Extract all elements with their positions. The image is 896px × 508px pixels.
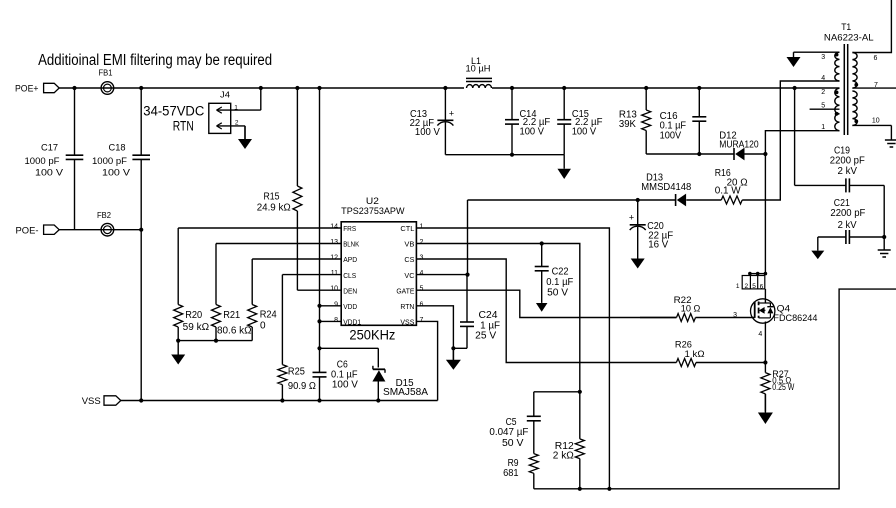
- capacitor C21: [818, 236, 846, 238]
- wire C5 top: [534, 391, 580, 393]
- capacitor C13: [444, 88, 446, 120]
- node C22 top: [540, 241, 544, 245]
- wire header to Q4 drain: [764, 289, 766, 303]
- svg-text:VDD: VDD: [343, 302, 358, 311]
- svg-text:GATE: GATE: [396, 286, 414, 295]
- wire CLS net: [282, 274, 341, 276]
- node C19 rail: [793, 86, 797, 90]
- node VDD rail: [317, 86, 321, 90]
- node C20 top: [636, 198, 640, 202]
- svg-text:SMAJ58A: SMAJ58A: [383, 387, 428, 398]
- capacitor C15: [563, 88, 565, 120]
- resistor R9: [529, 454, 538, 474]
- earth ground below C21: [883, 237, 885, 250]
- svg-text:6: 6: [874, 55, 878, 62]
- svg-text:C18: C18: [109, 142, 126, 152]
- T1 pin 5 stub: [810, 108, 840, 110]
- earth ground T1 pin 10: [890, 125, 892, 140]
- svg-text:100 V: 100 V: [332, 379, 358, 390]
- resistor R25: [281, 275, 283, 365]
- node Q4 source R26: [763, 360, 767, 364]
- node VDD: [317, 304, 321, 308]
- wire BLNK net: [216, 243, 341, 245]
- node C6 bottom: [317, 398, 321, 402]
- node C24 RTN join: [451, 346, 455, 350]
- ground T1 pin 3: [793, 52, 795, 57]
- svg-text:CTL: CTL: [400, 224, 414, 233]
- J4 pin 1 arrow: [217, 109, 261, 111]
- svg-text:3: 3: [821, 54, 825, 61]
- node VSS-C18: [139, 398, 143, 402]
- svg-text:DEN: DEN: [343, 286, 357, 295]
- svg-text:+: +: [629, 213, 634, 223]
- svg-text:VSS: VSS: [400, 318, 414, 327]
- svg-text:2 kV: 2 kV: [838, 220, 857, 231]
- resistor R26: [676, 359, 696, 367]
- svg-text:100 V: 100 V: [102, 167, 130, 177]
- node R21 bottom: [214, 339, 218, 343]
- wire C13 C14 C15 bottoms: [445, 154, 564, 156]
- capacitor C24: [466, 275, 468, 322]
- capacitor C16: [698, 88, 700, 117]
- wire D13 R16 row: [468, 199, 676, 201]
- wire POE- to FB2: [59, 229, 141, 231]
- capacitor C20: [637, 200, 639, 225]
- wire POE+ rail: [59, 87, 464, 89]
- svg-text:2200 pF: 2200 pF: [830, 208, 865, 219]
- svg-text:681: 681: [503, 468, 519, 479]
- wire CS net: [416, 259, 676, 363]
- svg-text:100 V: 100 V: [520, 127, 545, 138]
- svg-text:4: 4: [821, 75, 825, 82]
- svg-text:R20: R20: [185, 310, 202, 321]
- T1 pin 7 wire: [852, 87, 896, 89]
- node CTL bottom: [607, 487, 611, 491]
- wire VB net: [416, 244, 579, 439]
- node R13 rail: [644, 86, 648, 90]
- svg-text:100 V: 100 V: [415, 127, 440, 138]
- T1 secondary winding upper: [852, 53, 857, 89]
- svg-text:0.25 W: 0.25 W: [772, 382, 794, 392]
- svg-text:4: 4: [758, 331, 762, 338]
- ground below R27: [764, 394, 766, 413]
- wire GATE net: [416, 290, 676, 317]
- svg-text:5: 5: [752, 283, 756, 290]
- T1 pin 6 wire: [852, 0, 891, 53]
- svg-text:RTN: RTN: [173, 118, 194, 133]
- svg-text:3: 3: [420, 255, 424, 262]
- node R20 bottom: [176, 339, 180, 343]
- node C15 rail: [562, 86, 566, 90]
- svg-text:Additioinal EMI filtering may: Additioinal EMI filtering may be require…: [38, 52, 272, 69]
- svg-text:12: 12: [330, 255, 338, 262]
- T1 primary winding lower: [835, 88, 840, 130]
- port POE-: [44, 225, 60, 234]
- ground J4 pin 2: [244, 126, 246, 139]
- svg-text:100 V: 100 V: [572, 127, 597, 138]
- wire rail L1 to T1 pin 2: [492, 87, 840, 89]
- svg-text:24.9 kΩ: 24.9 kΩ: [257, 203, 292, 214]
- resistor R20: [177, 228, 179, 305]
- node C16 rail: [697, 86, 701, 90]
- wire C6 D15 top: [320, 347, 379, 349]
- svg-text:MMSD4148: MMSD4148: [641, 182, 691, 193]
- diode D15 SMAJ58A: [377, 348, 379, 367]
- wire J4 pin 1 to rail: [260, 88, 262, 110]
- capacitor C6: [319, 348, 321, 372]
- node FB2 junction: [139, 228, 143, 232]
- svg-text:FB1: FB1: [99, 69, 114, 78]
- svg-text:R25: R25: [288, 367, 305, 378]
- svg-text:14: 14: [330, 224, 338, 231]
- wire FRS net: [178, 227, 341, 229]
- svg-text:39K: 39K: [619, 119, 636, 130]
- svg-text:VB: VB: [404, 240, 414, 249]
- svg-text:R21: R21: [223, 310, 240, 321]
- node C16 bottom: [697, 152, 701, 156]
- wire DEN net: [297, 289, 341, 291]
- wire VSS pin to rail: [416, 321, 437, 400]
- svg-text:59 kΩ: 59 kΩ: [183, 322, 210, 333]
- svg-text:34-57VDC: 34-57VDC: [143, 103, 204, 118]
- svg-text:7: 7: [420, 317, 424, 324]
- svg-text:10 µH: 10 µH: [466, 64, 491, 74]
- svg-text:FRS: FRS: [343, 224, 356, 233]
- svg-text:0.047 µF: 0.047 µF: [489, 427, 528, 438]
- capacitor C14: [511, 88, 513, 120]
- svg-text:5: 5: [420, 286, 424, 293]
- node C13 rail: [443, 86, 447, 90]
- wire R16 to T1 pin 4: [742, 81, 839, 200]
- svg-text:R15: R15: [264, 191, 280, 202]
- svg-text:100 V: 100 V: [35, 167, 63, 177]
- svg-text:C22: C22: [552, 266, 569, 277]
- T1 secondary winding lower: [852, 91, 857, 125]
- svg-text:0: 0: [260, 320, 266, 331]
- svg-text:FB2: FB2: [97, 211, 112, 220]
- svg-text:50 V: 50 V: [547, 287, 568, 298]
- wire D13 branch vertical: [467, 200, 469, 275]
- node VC: [465, 273, 469, 277]
- svg-text:5: 5: [821, 103, 825, 110]
- wire VSS rail: [121, 400, 438, 402]
- T1 pin 1 wire: [765, 131, 839, 274]
- ground below C20: [637, 257, 639, 259]
- diode D12 MURA120: [733, 148, 735, 160]
- node D12 T1 pin1: [763, 152, 767, 156]
- wire FB2 node down to VSS rail: [140, 230, 142, 401]
- svg-text:FDC86244: FDC86244: [773, 313, 817, 324]
- ground below R20: [177, 341, 179, 355]
- svg-text:10: 10: [872, 118, 880, 125]
- wire R20 R21 R24 bottoms: [178, 340, 252, 342]
- svg-text:1 kΩ: 1 kΩ: [685, 349, 705, 359]
- ferrite bead FB2: [101, 223, 114, 236]
- svg-text:6: 6: [420, 301, 424, 308]
- svg-text:250KHz: 250KHz: [349, 327, 395, 342]
- node C17 top: [72, 86, 76, 90]
- svg-text:POE-: POE-: [16, 225, 39, 236]
- svg-text:T1: T1: [841, 22, 851, 32]
- wire bottom rail: [534, 289, 896, 489]
- svg-text:25 V: 25 V: [475, 331, 496, 342]
- node J4 rail: [259, 86, 263, 90]
- svg-text:0.1 µF: 0.1 µF: [546, 277, 573, 288]
- node D15 bottom: [376, 398, 380, 402]
- resistor R24: [251, 259, 253, 305]
- svg-text:VDD1: VDD1: [343, 318, 361, 327]
- svg-text:U2: U2: [366, 196, 379, 206]
- T1 pin 3 wire: [794, 51, 840, 53]
- node R15 rail: [295, 86, 299, 90]
- svg-text:50 V: 50 V: [502, 438, 524, 449]
- svg-text:2: 2: [420, 239, 424, 246]
- svg-text:2 kV: 2 kV: [838, 166, 858, 177]
- inductor L1: [467, 85, 492, 88]
- diode D13 MMSD4148: [675, 194, 677, 206]
- svg-text:RTN: RTN: [400, 302, 414, 311]
- svg-text:2: 2: [235, 119, 239, 126]
- capacitor C17: [74, 88, 76, 155]
- resistor R12: [575, 439, 584, 459]
- port VSS: [104, 396, 121, 405]
- wire C19 to C21 right: [883, 185, 885, 237]
- svg-text:6: 6: [760, 284, 764, 291]
- node R25 bottom: [280, 398, 284, 402]
- node VDD1: [317, 319, 321, 323]
- svg-text:1: 1: [821, 124, 825, 131]
- ferrite bead FB1: [101, 82, 114, 95]
- wire clamp bottom: [646, 153, 734, 155]
- resistor R27: [764, 363, 766, 373]
- svg-text:+: +: [449, 109, 454, 119]
- svg-text:1: 1: [234, 104, 238, 111]
- svg-text:MURA120: MURA120: [719, 140, 759, 151]
- svg-text:POE+: POE+: [15, 84, 39, 95]
- svg-text:NA6223-AL: NA6223-AL: [824, 33, 874, 43]
- svg-text:VSS: VSS: [82, 396, 101, 407]
- resistor R22: [640, 317, 677, 319]
- svg-text:R24: R24: [260, 309, 277, 320]
- svg-text:90.9 Ω: 90.9 Ω: [288, 381, 316, 392]
- wire VDD stub: [320, 305, 342, 307]
- svg-text:10 Ω: 10 Ω: [681, 304, 701, 314]
- ground below C15: [563, 155, 565, 169]
- T1 core: [843, 44, 845, 135]
- svg-text:4: 4: [420, 270, 424, 277]
- resistor R21: [215, 244, 217, 305]
- svg-text:C17: C17: [41, 142, 58, 152]
- node C14 rail: [510, 86, 514, 90]
- svg-text:2200 pF: 2200 pF: [830, 156, 865, 167]
- op-amp U2 TPS23753APW body: [341, 222, 416, 325]
- wire RTN net: [416, 306, 453, 362]
- svg-text:11: 11: [331, 270, 338, 277]
- capacitor C5: [533, 392, 535, 417]
- node C14 bottom: [510, 153, 514, 157]
- svg-text:BLNK: BLNK: [343, 240, 359, 249]
- resistor R15: [296, 88, 298, 186]
- svg-text:C24: C24: [479, 310, 498, 321]
- svg-text:APD: APD: [343, 255, 358, 264]
- svg-text:J4: J4: [220, 91, 231, 100]
- capacitor C22: [541, 244, 543, 267]
- svg-text:1: 1: [736, 283, 740, 290]
- port POE+: [44, 83, 60, 92]
- wire VC net: [416, 274, 467, 276]
- node C6 top: [317, 346, 321, 350]
- T1 pin 10 wire: [852, 124, 891, 126]
- wire VDD vertical: [319, 88, 321, 348]
- svg-text:2 kΩ: 2 kΩ: [553, 451, 575, 462]
- node C18 top: [139, 86, 143, 90]
- svg-text:1000 pF: 1000 pF: [92, 156, 128, 166]
- wire VDD1 stub: [320, 320, 342, 322]
- svg-text:7: 7: [874, 82, 878, 89]
- svg-text:16 V: 16 V: [648, 240, 668, 251]
- node R12 bottom: [578, 487, 582, 491]
- svg-text:2: 2: [744, 283, 748, 290]
- svg-text:0.1 W: 0.1 W: [715, 186, 742, 197]
- svg-text:TPS23753APW: TPS23753APW: [341, 206, 405, 216]
- Q4 source wire: [764, 322, 766, 363]
- J4 pin 2 arrow: [217, 125, 246, 127]
- T1 polarity dots: [835, 53, 839, 57]
- wire rail to C19: [794, 88, 796, 185]
- Q4 drain header: [742, 276, 765, 289]
- ground C21 left: [817, 237, 819, 251]
- node C21 right: [882, 235, 886, 239]
- svg-text:CS: CS: [404, 255, 414, 264]
- svg-text:9: 9: [334, 301, 338, 308]
- svg-text:3: 3: [733, 312, 737, 319]
- capacitor C19: [795, 184, 846, 186]
- svg-text:VC: VC: [404, 271, 415, 280]
- wire APD net: [252, 258, 341, 260]
- svg-text:1000 pF: 1000 pF: [25, 156, 61, 166]
- ground RTN: [452, 348, 454, 360]
- svg-text:100V: 100V: [660, 130, 682, 141]
- svg-text:8: 8: [334, 317, 338, 324]
- svg-text:80.6 kΩ: 80.6 kΩ: [217, 325, 252, 336]
- capacitor C18: [140, 88, 142, 155]
- T1 primary winding upper: [835, 52, 840, 81]
- resistor R13: [645, 88, 647, 110]
- wire CTL net: [416, 228, 609, 489]
- ground below C22: [541, 302, 543, 304]
- resistor R16: [721, 196, 742, 204]
- svg-text:CLS: CLS: [343, 271, 356, 280]
- svg-text:1: 1: [420, 224, 424, 231]
- transistor Q4 FDC86244: [751, 299, 775, 323]
- connector J4: [209, 103, 231, 133]
- svg-text:10: 10: [330, 286, 338, 293]
- node R12 top: [578, 390, 582, 394]
- svg-text:2: 2: [821, 89, 825, 96]
- svg-text:13: 13: [330, 239, 338, 246]
